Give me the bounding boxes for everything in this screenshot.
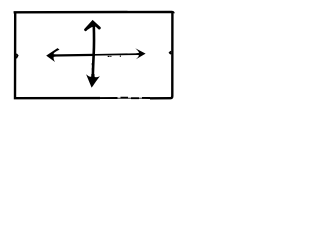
right arrowhead xyxy=(135,48,145,59)
frame border left and bottom-left xyxy=(15,12,100,98)
horizontal double arrow shaft left part xyxy=(53,54,95,57)
horizontal double arrow shaft right part xyxy=(95,53,139,56)
frame border bottom dashes xyxy=(100,97,150,100)
left border bump xyxy=(16,54,17,58)
left arrowhead xyxy=(46,48,59,62)
specks under right shaft xyxy=(108,55,121,57)
top arrowhead xyxy=(85,21,100,31)
right border bump xyxy=(170,51,171,54)
bottom arrowhead xyxy=(86,74,100,88)
vertical double arrow shaft xyxy=(93,26,94,79)
frame border top and right xyxy=(14,12,174,98)
vertical shaft bumps xyxy=(91,63,93,70)
